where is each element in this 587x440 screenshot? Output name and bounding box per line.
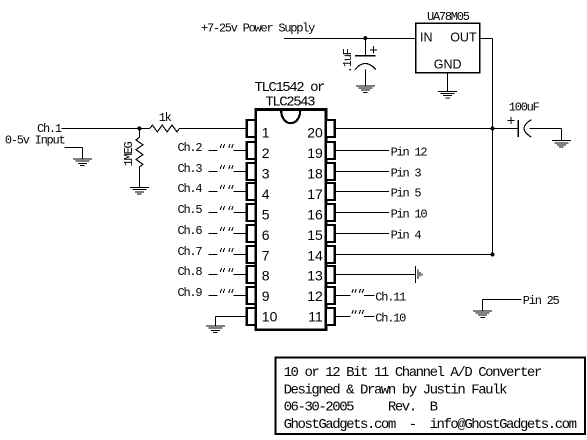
svg-text:Ch.6: Ch.6 [178, 224, 203, 238]
pin box pin 6 [247, 225, 256, 242]
pin box pin 18 [326, 163, 335, 180]
svg-text:Ch.11: Ch.11 [375, 290, 406, 304]
junction node pin20/100uF bus [490, 126, 494, 130]
wire pin 19 stub [335, 149, 389, 151]
svg-text:1MEG: 1MEG [122, 142, 136, 167]
svg-text:7: 7 [262, 247, 270, 263]
wire Ch.2 to pin 2 with ditto [209, 144, 247, 150]
capacitor C2 100uF [493, 101, 562, 141]
svg-text:Pin 25: Pin 25 [523, 294, 560, 308]
svg-text:11: 11 [308, 309, 323, 325]
resistor R2 1MEG [122, 128, 143, 167]
svg-text:14: 14 [307, 247, 323, 263]
svg-text:3: 3 [262, 165, 270, 181]
pin box pin 4 [247, 183, 256, 200]
svg-text:100uF: 100uF [509, 101, 540, 115]
svg-text:8: 8 [262, 268, 270, 284]
ground (pin 13) [416, 266, 422, 283]
svg-text:1k: 1k [159, 111, 172, 125]
resistor R1 1k [139, 111, 179, 132]
wire Pin 25 to ground [483, 298, 522, 300]
wire pin 13 to ground [335, 273, 416, 275]
wire pin 11 with ditto [335, 310, 375, 316]
svg-text:10 or 12 Bit 11 Channel A/D Co: 10 or 12 Bit 11 Channel A/D Converter [284, 365, 542, 381]
pin box pin 14 [326, 246, 335, 263]
wire pin 20 to supply bus [335, 127, 493, 129]
wire Ch.8 to pin 8 with ditto [209, 268, 247, 274]
svg-text:0-5v Input: 0-5v Input [5, 134, 65, 148]
wire pin 15 stub [335, 232, 389, 234]
pin box pin 16 [326, 204, 335, 221]
svg-text:9: 9 [262, 288, 270, 304]
pin box pin 15 [326, 225, 335, 242]
svg-text:6: 6 [262, 227, 270, 243]
svg-text:Ch.7: Ch.7 [178, 245, 203, 259]
wire Ch.9 to pin 9 with ditto [209, 289, 247, 295]
svg-text:2: 2 [262, 145, 270, 161]
wire Ch.4 to pin 4 with ditto [209, 185, 247, 191]
pin box pin 8 [247, 266, 256, 283]
svg-text:Pin 4: Pin 4 [391, 228, 422, 242]
svg-text:Pin 3: Pin 3 [391, 166, 422, 180]
ground (100uF) [552, 141, 571, 148]
svg-text:06-30-2005 Rev. B: 06-30-2005 Rev. B [284, 400, 438, 416]
title box [276, 358, 586, 435]
svg-text:Ch.2: Ch.2 [178, 141, 203, 155]
wire regulator OUT [480, 37, 493, 39]
pin box pin 12 [326, 287, 335, 304]
wire 1MEG to ground [138, 167, 140, 187]
svg-text:Ch.5: Ch.5 [178, 203, 203, 217]
svg-text:10: 10 [262, 309, 278, 325]
svg-text:+7-25v Power Supply: +7-25v Power Supply [201, 22, 315, 36]
ground (pin 10) [206, 326, 225, 333]
wire pin 12 with ditto [335, 289, 375, 295]
svg-text:15: 15 [307, 227, 323, 243]
wire pin 18 stub [335, 170, 389, 172]
svg-text:5: 5 [262, 206, 270, 222]
svg-text:Ch.8: Ch.8 [178, 265, 203, 279]
svg-text:1: 1 [262, 125, 270, 141]
wire vertical bus OUT down to pin 14 [492, 38, 494, 254]
capacitor C1 .1uF [341, 38, 377, 86]
svg-text:UA78M05: UA78M05 [427, 10, 470, 24]
junction node power/.1uF [363, 36, 367, 40]
svg-text:4: 4 [262, 186, 270, 202]
voltage regulator UA78M05 [416, 10, 480, 73]
svg-text:16: 16 [307, 206, 323, 222]
pin box pin 17 [326, 183, 335, 200]
svg-text:.1uF: .1uF [341, 48, 355, 73]
wire pin 14 to supply bus [335, 253, 493, 255]
wire power supply to regulator IN [284, 37, 416, 39]
pin box pin 1 [247, 120, 256, 137]
wire pin 10 to ground [215, 315, 246, 317]
svg-text:Pin 5: Pin 5 [391, 186, 422, 200]
svg-text:18: 18 [307, 165, 323, 181]
wire pin 16 stub [335, 211, 389, 213]
ground (regulator) [438, 91, 457, 98]
IC U2 TLC1542/TLC2543 DIP-20 body [256, 110, 326, 330]
pin box pin 13 [326, 266, 335, 283]
ground (.1uF) [356, 86, 375, 93]
pin box pin 2 [247, 142, 256, 159]
wire input ground lead [65, 146, 83, 148]
svg-text:20: 20 [307, 125, 323, 141]
pin box pin 10 [247, 308, 256, 325]
ground (Pin 25) [473, 311, 492, 318]
pin box pin 19 [326, 142, 335, 159]
wire regulator GND pin [447, 73, 449, 92]
wire pin 17 stub [335, 190, 389, 192]
svg-text:TLC1542 or: TLC1542 or [255, 80, 326, 96]
svg-text:Pin 12: Pin 12 [391, 145, 428, 159]
wire Ch.3 to pin 3 with ditto [209, 165, 247, 171]
svg-text:Ch.9: Ch.9 [178, 286, 203, 300]
svg-text:Ch.10: Ch.10 [375, 311, 406, 325]
svg-text:19: 19 [307, 145, 323, 161]
pin box pin 11 [326, 308, 335, 325]
junction node Ch.1/1k/1MEG [137, 126, 141, 130]
svg-text:OUT: OUT [450, 31, 477, 45]
svg-text:Ch.4: Ch.4 [178, 182, 203, 196]
junction node pin14/bus [490, 252, 494, 256]
wire Ch.7 to pin 7 with ditto [209, 248, 247, 254]
svg-text:GhostGadgets.com - info@Ghos: GhostGadgets.com - info@GhostGadgets.com [284, 417, 577, 433]
ground (1MEG) [130, 187, 149, 194]
wire Ch.5 to pin 5 with ditto [209, 206, 247, 212]
wire 1k to pin 1 [180, 127, 247, 129]
wire Ch.6 to pin 6 with ditto [209, 227, 247, 233]
svg-text:12: 12 [307, 288, 323, 304]
svg-text:13: 13 [307, 268, 323, 284]
svg-text:17: 17 [307, 186, 323, 202]
pin box pin 5 [247, 204, 256, 221]
wire Ch.1 to junction [62, 127, 140, 129]
ground (input) [73, 159, 92, 166]
svg-text:IN: IN [420, 31, 433, 45]
svg-text:GND: GND [434, 58, 462, 72]
svg-text:Designed & Drawn by Justin Fau: Designed & Drawn by Justin Faulk [284, 382, 507, 398]
pin box pin 9 [247, 287, 256, 304]
pin box pin 3 [247, 163, 256, 180]
svg-text:Ch.3: Ch.3 [178, 162, 203, 176]
svg-text:Pin 10: Pin 10 [391, 207, 428, 221]
pin box pin 7 [247, 246, 256, 263]
pin box pin 20 [326, 120, 335, 137]
svg-text:TLC2543: TLC2543 [265, 95, 315, 111]
